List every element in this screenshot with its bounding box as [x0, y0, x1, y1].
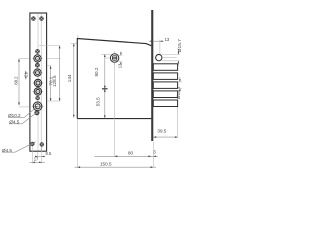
svg-text:Ø4.5: Ø4.5: [2, 148, 12, 153]
svg-text:80: 80: [128, 150, 134, 155]
svg-text:13: 13: [118, 63, 123, 68]
svg-text:39.5: 39.5: [157, 128, 166, 133]
svg-text:53.5: 53.5: [96, 97, 101, 106]
svg-text:150.5: 150.5: [100, 162, 112, 167]
svg-text:128.5: 128.5: [52, 75, 57, 87]
svg-text:144: 144: [67, 74, 72, 82]
svg-text:Ø10.2: Ø10.2: [8, 113, 21, 118]
svg-text:Ø15.7: Ø15.7: [176, 86, 182, 99]
svg-text:Ø4.5: Ø4.5: [9, 119, 19, 124]
svg-text:Ø15.7: Ø15.7: [177, 39, 183, 52]
svg-text:13: 13: [165, 37, 170, 42]
svg-text:68.2: 68.2: [14, 76, 19, 85]
svg-text:21: 21: [23, 72, 28, 77]
svg-text:8.5: 8.5: [46, 151, 52, 156]
svg-text:80.2: 80.2: [94, 67, 99, 76]
svg-text:17: 17: [34, 156, 39, 161]
